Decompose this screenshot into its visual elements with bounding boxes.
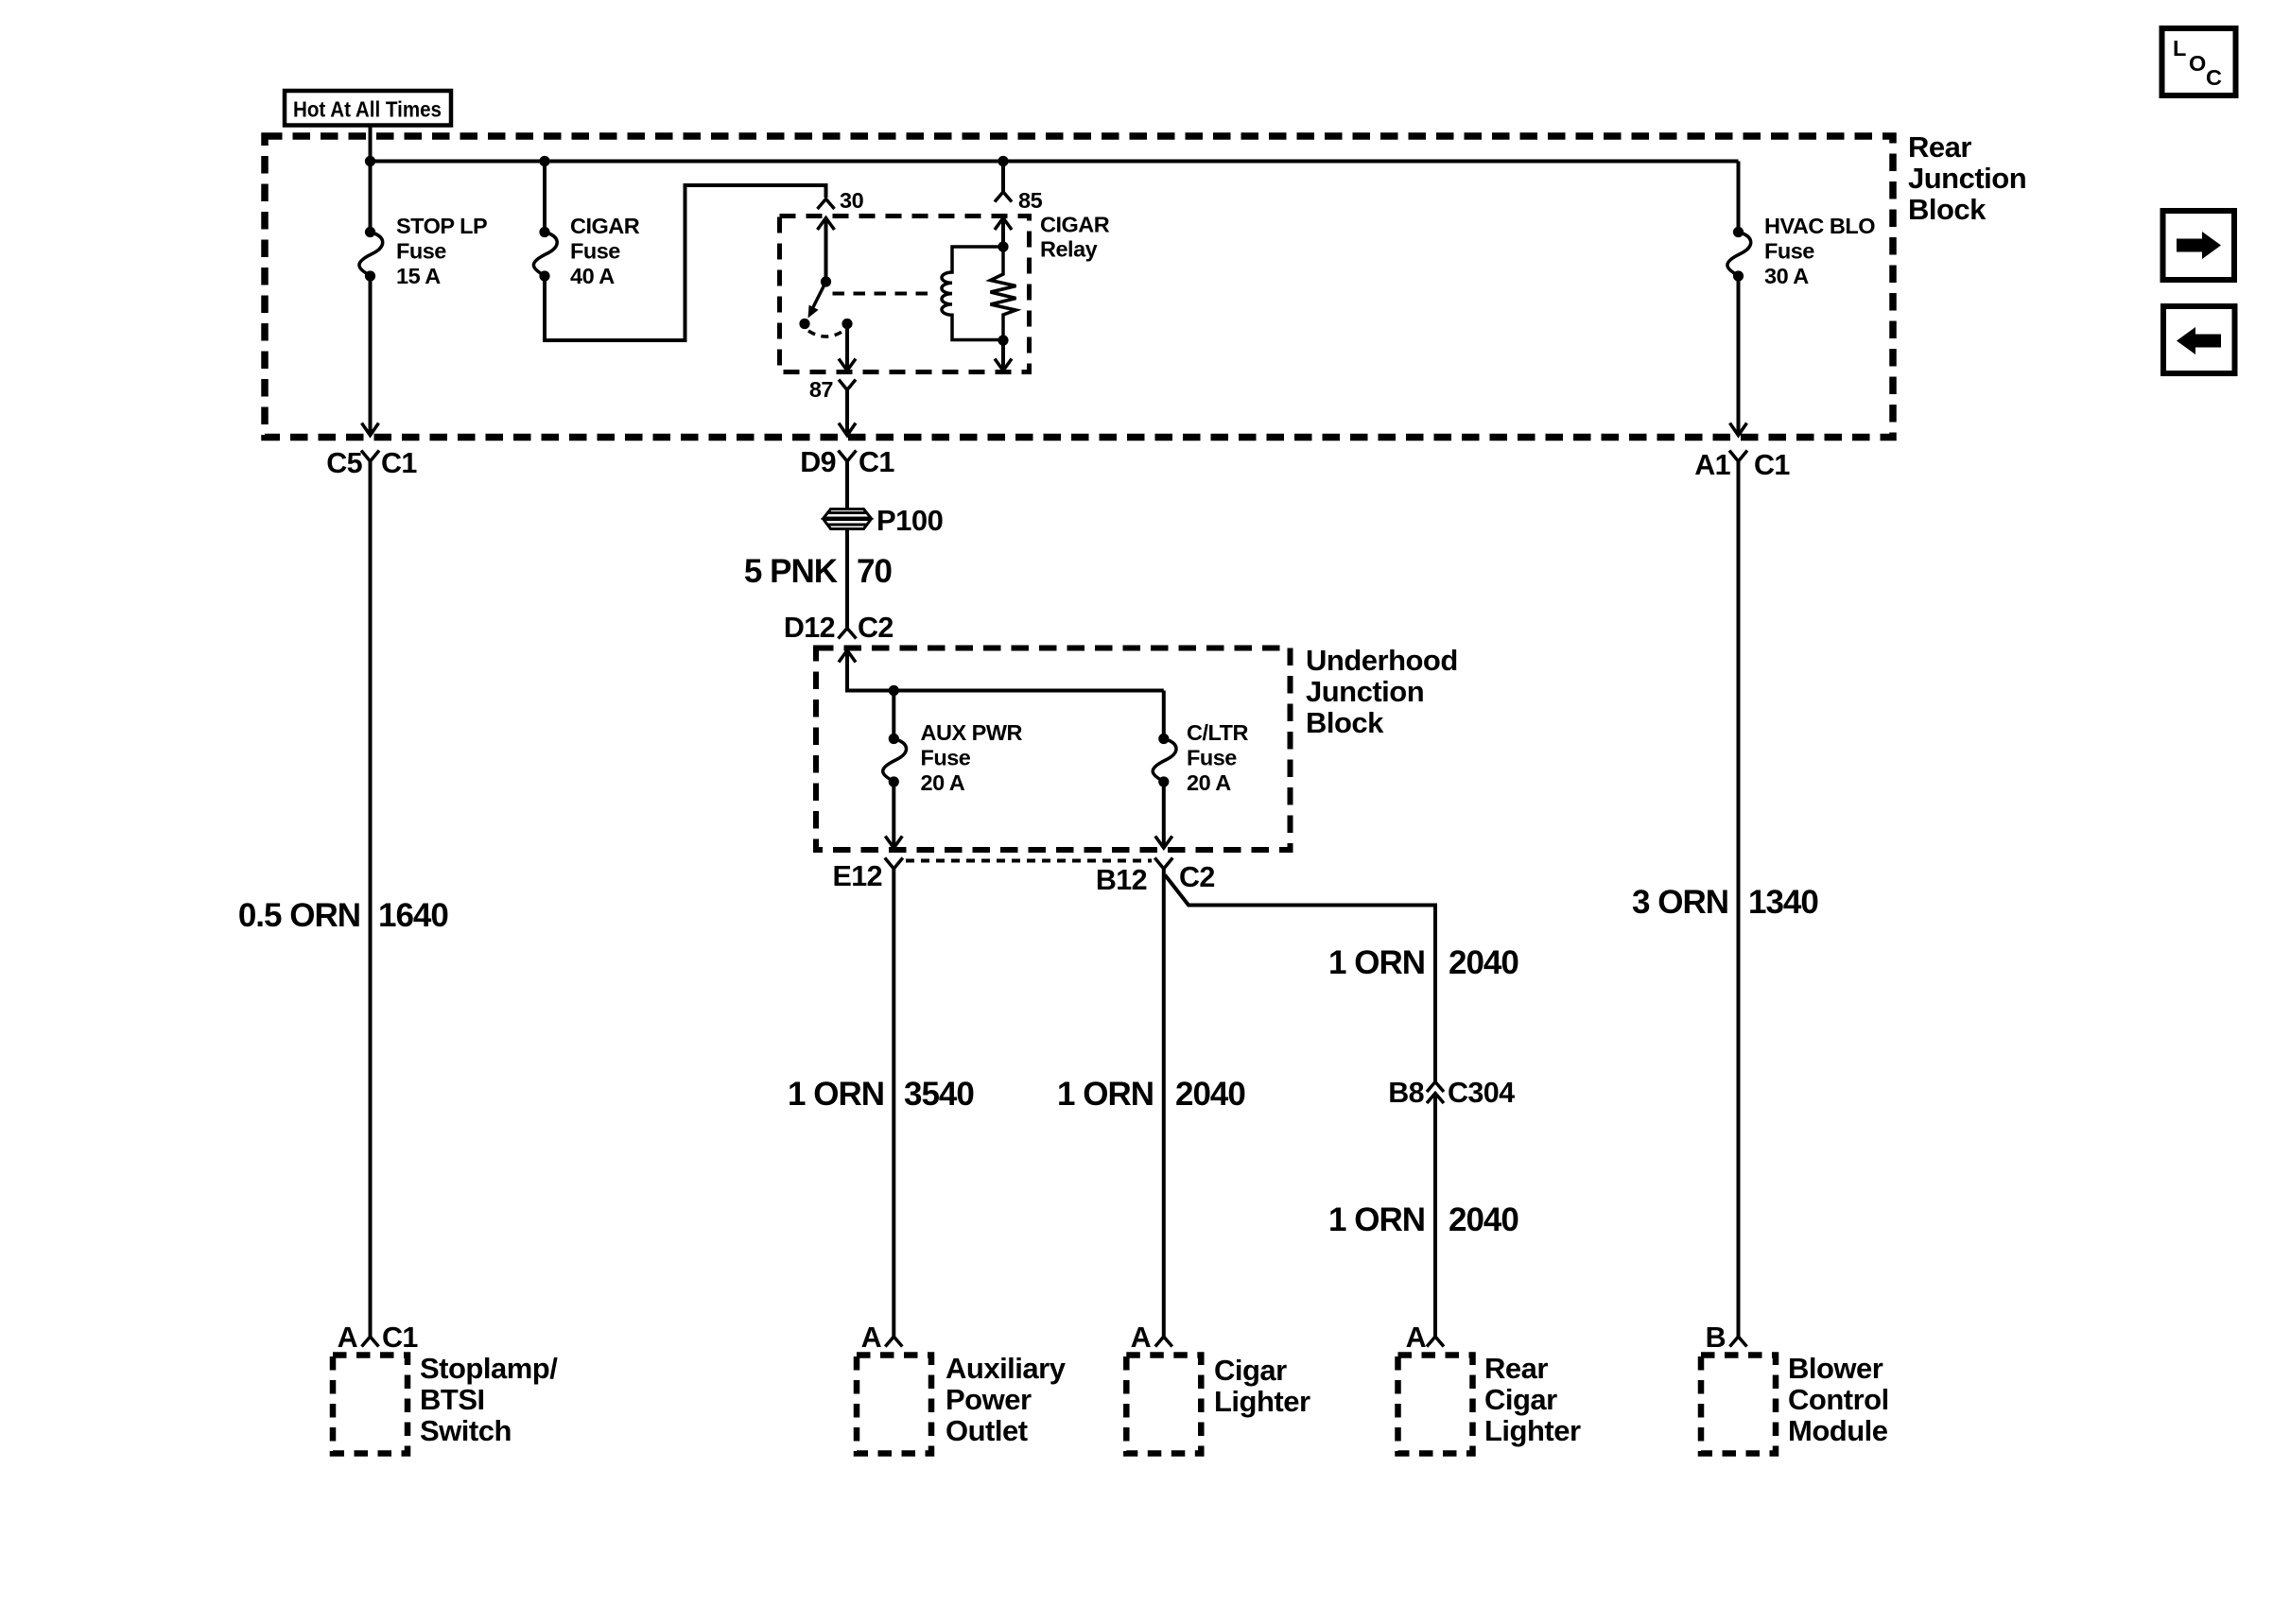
svg-text:L: L — [2173, 36, 2186, 60]
node: relay pin 87 contact — [842, 319, 852, 329]
wire: branch from B12 to rear cigar lighter — [1165, 875, 1435, 1082]
wire: P100 to D12 (circuit 70) — [845, 529, 849, 629]
svg-text:5 PNK: 5 PNK — [744, 553, 838, 590]
svg-text:C1: C1 — [382, 1322, 418, 1354]
connector B12 C2 female — [1154, 858, 1172, 870]
pin A chevron at rear cigar lighter — [1427, 1337, 1444, 1347]
component box Stoplamp/BTSI Switch — [333, 1356, 408, 1454]
svg-text:Fuse: Fuse — [1764, 239, 1814, 264]
forward page arrow box — [2163, 211, 2235, 280]
fuse CIGAR 40 A — [533, 227, 557, 282]
label: Stoplamp/BTSI Switch — [420, 1352, 558, 1447]
fuse AUX PWR 20 A — [883, 734, 907, 787]
svg-text:B8: B8 — [1388, 1077, 1424, 1109]
svg-text:A: A — [1131, 1322, 1152, 1354]
label: Auxiliary Power Outlet — [946, 1352, 1067, 1447]
svg-text:70: 70 — [857, 553, 892, 590]
wire: C/LTR fuse to B12 exit — [1162, 782, 1166, 848]
wire: power bus — [371, 160, 1739, 164]
svg-text:15 A: 15 A — [396, 264, 441, 288]
wire: tap down to AUX PWR fuse — [892, 691, 895, 735]
svg-text:1 ORN: 1 ORN — [1328, 944, 1425, 981]
svg-text:87: 87 — [809, 377, 834, 402]
wire: AUX PWR fuse to E12 exit — [892, 782, 895, 848]
connector D12 C2 male chevron — [839, 629, 857, 639]
svg-text:B: B — [1706, 1322, 1726, 1354]
svg-text:O: O — [2189, 51, 2206, 76]
wire: pin 87 contact down to box edge — [845, 324, 849, 371]
pin 87 female connector below relay — [839, 380, 856, 390]
Underhood Junction Block dashed box — [816, 648, 1291, 851]
svg-text:AUX PWR: AUX PWR — [921, 720, 1023, 745]
wire: C/LTR branch down from distribution — [1162, 691, 1166, 735]
relay armature arm with arrowhead — [808, 285, 825, 319]
wire: bus tap down to relay pin 85 — [1001, 162, 1005, 192]
svg-text:Stoplamp/: Stoplamp/ — [420, 1352, 558, 1385]
label: 3 ORN 1340 — [1632, 884, 1818, 921]
svg-text:Cigar: Cigar — [1484, 1383, 1557, 1416]
svg-text:CIGAR: CIGAR — [1040, 213, 1110, 237]
svg-text:P100: P100 — [876, 504, 943, 537]
svg-text:2040: 2040 — [1449, 1201, 1518, 1238]
svg-text:Junction: Junction — [1306, 675, 1424, 708]
svg-text:CIGAR: CIGAR — [570, 214, 640, 238]
label: A C1 at stoplamp — [338, 1322, 419, 1354]
svg-text:Lighter: Lighter — [1484, 1414, 1581, 1447]
svg-text:Block: Block — [1908, 193, 1987, 226]
dashed arc between contacts — [808, 331, 843, 337]
arrow: exit at A1 — [1730, 423, 1747, 436]
svg-text:D9: D9 — [800, 446, 836, 478]
node: relay common contact — [799, 319, 809, 329]
svg-text:Junction: Junction — [1908, 162, 2026, 195]
label: Blower Control Module — [1788, 1352, 1889, 1447]
pin B chevron at blower control module — [1730, 1337, 1747, 1347]
label: Rear Cigar Lighter — [1484, 1352, 1581, 1447]
wire: feed to distribution in block — [847, 650, 1164, 691]
wire: A1 to blower control module (circuit 1340) — [1737, 461, 1741, 1337]
svg-text:Fuse: Fuse — [921, 746, 971, 770]
wire: bus to STOP LP fuse — [369, 162, 373, 229]
dashed link between E12 and B12 connector — [906, 859, 1152, 863]
wire: relay pin 30 to armature pivot — [824, 218, 828, 283]
connector A1 C1 female — [1729, 451, 1747, 462]
wire: E12 to auxiliary power outlet (circuit 3540) — [892, 869, 895, 1337]
connector C5 C1 female — [361, 451, 379, 462]
pin 85 female chevron — [995, 192, 1012, 202]
arrow: exit at E12 — [885, 837, 902, 849]
svg-text:2040: 2040 — [1449, 944, 1518, 981]
svg-text:1 ORN: 1 ORN — [1328, 1201, 1425, 1238]
svg-text:Control: Control — [1788, 1383, 1889, 1416]
svg-text:2040: 2040 — [1175, 1076, 1245, 1113]
svg-text:1640: 1640 — [378, 897, 448, 934]
svg-text:Rear: Rear — [1908, 130, 1971, 164]
pin A chevron at auxiliary power outlet — [885, 1337, 902, 1347]
arrow: relay pin 87 exit — [839, 359, 856, 371]
svg-text:1 ORN: 1 ORN — [788, 1076, 884, 1113]
node: armature pivot — [821, 276, 831, 286]
component box Rear Cigar Lighter — [1398, 1356, 1473, 1454]
wire: STOP LP fuse to C5 exit — [369, 276, 373, 435]
relay pin 85 male arrow inside box — [995, 218, 1012, 231]
svg-text:A1: A1 — [1694, 449, 1730, 481]
svg-text:BTSI: BTSI — [420, 1383, 485, 1416]
svg-text:Hot At All Times: Hot At All Times — [293, 97, 442, 122]
svg-text:Underhood: Underhood — [1306, 644, 1458, 677]
Rear Junction Block dashed box — [265, 136, 1893, 438]
wire: C304 to rear cigar lighter (circuit 2040) — [1433, 1095, 1437, 1337]
wire: bus to CIGAR fuse — [543, 162, 547, 229]
relay suppression resistor — [991, 247, 1016, 340]
label: D12 C2 — [784, 612, 894, 644]
arrow: D12 feed entering block — [839, 650, 856, 663]
svg-text:Cigar: Cigar — [1214, 1354, 1287, 1387]
pin A chevron at stoplamp switch — [362, 1337, 379, 1347]
svg-text:A: A — [1406, 1322, 1427, 1354]
svg-text:Blower: Blower — [1788, 1352, 1883, 1385]
connector B8 C304 inline double chevron — [1427, 1082, 1444, 1104]
node: bus tap at relay pin 85 — [998, 156, 1008, 166]
back page arrow box — [2163, 306, 2235, 373]
svg-text:C1: C1 — [1754, 449, 1790, 481]
LOC reference box — [2162, 28, 2236, 95]
svg-text:40 A: 40 A — [570, 264, 615, 288]
label: 1 ORN 3540 — [788, 1076, 974, 1113]
label: 5 PNK 70 — [744, 553, 893, 590]
svg-text:Block: Block — [1306, 706, 1384, 739]
fuse STOP LP 15 A — [359, 227, 383, 282]
svg-text:C1: C1 — [859, 446, 894, 478]
svg-text:C2: C2 — [858, 612, 894, 644]
svg-text:1 ORN: 1 ORN — [1057, 1076, 1154, 1113]
svg-text:Power: Power — [946, 1383, 1032, 1416]
arrow: exit at C5 — [362, 423, 379, 436]
svg-text:Switch: Switch — [420, 1414, 512, 1447]
label: C5 C1 — [326, 447, 417, 479]
pin A chevron at cigar lighter — [1155, 1337, 1172, 1347]
svg-text:85: 85 — [1018, 188, 1043, 213]
svg-text:A: A — [861, 1322, 882, 1354]
label: 1 ORN 2040 cigar lighter — [1057, 1076, 1245, 1113]
fuse C/LTR 20 A — [1153, 734, 1176, 787]
arrow: exit at B12 — [1155, 837, 1172, 849]
svg-text:A: A — [338, 1322, 358, 1354]
svg-text:Fuse: Fuse — [396, 239, 446, 264]
svg-text:Rear: Rear — [1484, 1352, 1548, 1385]
svg-text:C1: C1 — [381, 447, 417, 479]
svg-text:1340: 1340 — [1748, 884, 1818, 921]
label: 0.5 ORN 1640 — [238, 897, 449, 934]
label: Underhood Junction Block — [1306, 644, 1458, 739]
wire: coil bottom to box edge — [1001, 340, 1005, 370]
svg-text:C304: C304 — [1448, 1077, 1515, 1109]
component box Auxiliary Power Outlet — [857, 1356, 931, 1454]
svg-text:C/LTR: C/LTR — [1187, 720, 1248, 745]
label: C/LTR Fuse 20 A — [1187, 720, 1248, 795]
label: A1 C1 — [1694, 449, 1790, 481]
node: bus tap at STOP LP fuse — [365, 156, 375, 166]
Rear Junction Block label — [1908, 130, 2026, 226]
node: bus tap at CIGAR fuse — [539, 156, 549, 166]
svg-text:HVAC BLO: HVAC BLO — [1764, 214, 1875, 238]
node: coil top junction — [998, 241, 1008, 251]
label: B12 C2 — [1096, 861, 1215, 896]
component box Blower Control Module — [1701, 1356, 1776, 1454]
wire: pin 87 to D9 exit — [845, 390, 849, 436]
node: coil bottom junction — [998, 335, 1008, 345]
svg-text:Fuse: Fuse — [1187, 746, 1237, 770]
svg-text:D12: D12 — [784, 612, 835, 644]
label: B8 C304 — [1388, 1077, 1515, 1109]
wire: C5 to stoplamp switch (circuit 1640) — [369, 461, 373, 1337]
svg-text:E12: E12 — [833, 860, 882, 892]
Hot At All Times label — [285, 91, 451, 126]
wire: D9 to P100 — [845, 461, 849, 509]
svg-text:Module: Module — [1788, 1414, 1888, 1447]
connector E12 female — [885, 858, 903, 870]
arrow: relay pin 86 exit — [995, 359, 1012, 371]
svg-text:Relay: Relay — [1040, 237, 1098, 262]
component box Cigar Lighter — [1126, 1356, 1201, 1454]
svg-text:Lighter: Lighter — [1214, 1385, 1310, 1418]
svg-text:Outlet: Outlet — [946, 1414, 1028, 1447]
svg-text:20 A: 20 A — [1187, 770, 1231, 795]
label: CIGAR Fuse 40 A — [570, 214, 640, 288]
wire: bus corner down to HVAC BLO fuse — [1737, 162, 1741, 229]
connector D9 C1 female — [839, 451, 857, 462]
label: D9 C1 — [800, 446, 894, 478]
svg-text:B12: B12 — [1096, 864, 1147, 896]
node: tap at AUX PWR fuse — [889, 685, 899, 696]
dashed control link armature to coil — [833, 292, 935, 296]
svg-text:STOP LP: STOP LP — [396, 214, 487, 238]
label: HVAC BLO Fuse 30 A — [1764, 214, 1875, 288]
svg-text:20 A: 20 A — [921, 770, 965, 795]
relay pin 30 male arrow inside box — [818, 218, 835, 231]
label: Cigar Lighter — [1214, 1354, 1310, 1418]
label: 1 ORN 2040 rear lower — [1328, 1201, 1518, 1238]
label: 1 ORN 2040 rear upper — [1328, 944, 1518, 981]
grommet P100 — [824, 510, 871, 529]
wire: feed from Hot At All Times into block — [369, 126, 373, 162]
label: STOP LP Fuse 15 A — [396, 214, 487, 288]
wire: CIGAR fuse routing to relay pin 30 — [545, 185, 826, 340]
fuse HVAC BLO 30 A — [1727, 227, 1751, 282]
svg-text:30 A: 30 A — [1764, 264, 1809, 288]
svg-text:3 ORN: 3 ORN — [1632, 884, 1728, 921]
svg-text:C5: C5 — [326, 447, 362, 479]
svg-text:30: 30 — [840, 188, 864, 213]
svg-text:Fuse: Fuse — [570, 239, 620, 264]
label: CIGAR Relay — [1040, 213, 1110, 262]
svg-text:Auxiliary: Auxiliary — [946, 1352, 1067, 1385]
wire: B12 to cigar lighter (circuit 2040) — [1162, 869, 1166, 1337]
relay CIGAR Relay dashed box — [780, 216, 1030, 372]
pin 30 female chevron — [818, 199, 835, 210]
svg-text:0.5 ORN: 0.5 ORN — [238, 897, 360, 934]
svg-text:C: C — [2206, 65, 2222, 90]
svg-text:3540: 3540 — [904, 1076, 974, 1113]
relay coil winding — [942, 247, 1003, 340]
wire: HVAC BLO fuse to A1 exit — [1737, 276, 1741, 435]
svg-text:C2: C2 — [1179, 861, 1215, 893]
arrow: exit at D9 — [839, 423, 856, 436]
label: AUX PWR Fuse 20 A — [921, 720, 1023, 795]
wire: pin 85 arrow to coil node — [1001, 218, 1005, 248]
